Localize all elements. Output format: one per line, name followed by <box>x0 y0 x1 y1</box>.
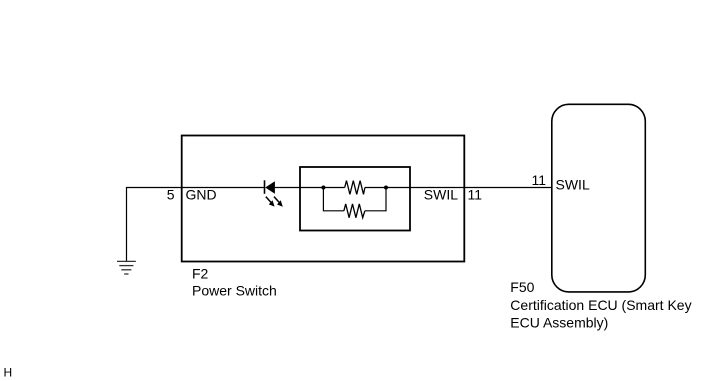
LED D1 emission arrow 1 <box>266 197 275 207</box>
svg-text:11: 11 <box>531 172 546 188</box>
LED D1 emission arrow 2 <box>274 197 283 207</box>
component box F2 <box>182 136 465 262</box>
svg-text:Power Switch: Power Switch <box>192 283 277 299</box>
wire LED-to-resistor <box>275 187 345 189</box>
svg-text:11: 11 <box>468 187 483 203</box>
svg-text:SWIL: SWIL <box>556 177 590 193</box>
ground <box>117 261 136 274</box>
svg-text:ECU Assembly): ECU Assembly) <box>510 315 608 331</box>
LED D1 cathode bar <box>264 180 266 194</box>
svg-text:Certification ECU (Smart Key: Certification ECU (Smart Key <box>510 297 691 313</box>
wire resistor-to-ECU at net SWIL <box>365 187 552 189</box>
junction node left <box>321 186 325 190</box>
svg-text:5: 5 <box>167 187 175 203</box>
inner box (switch resistor block) <box>300 167 410 231</box>
svg-text:F2: F2 <box>192 266 209 282</box>
svg-text:F50: F50 <box>510 279 534 295</box>
wire parallel branch right <box>365 188 386 211</box>
junction node right <box>384 186 388 190</box>
resistor R1 (top) <box>345 181 365 195</box>
LED D1 triangle <box>265 181 275 194</box>
wire ground-to-LED at net GND <box>127 188 265 262</box>
wire parallel branch left <box>323 188 344 211</box>
svg-text:SWIL: SWIL <box>424 187 458 203</box>
resistor R2 (bottom) <box>344 204 365 218</box>
svg-text:GND: GND <box>186 187 217 203</box>
component box F50 (Certification ECU) <box>552 104 646 292</box>
svg-text:H: H <box>4 366 13 380</box>
